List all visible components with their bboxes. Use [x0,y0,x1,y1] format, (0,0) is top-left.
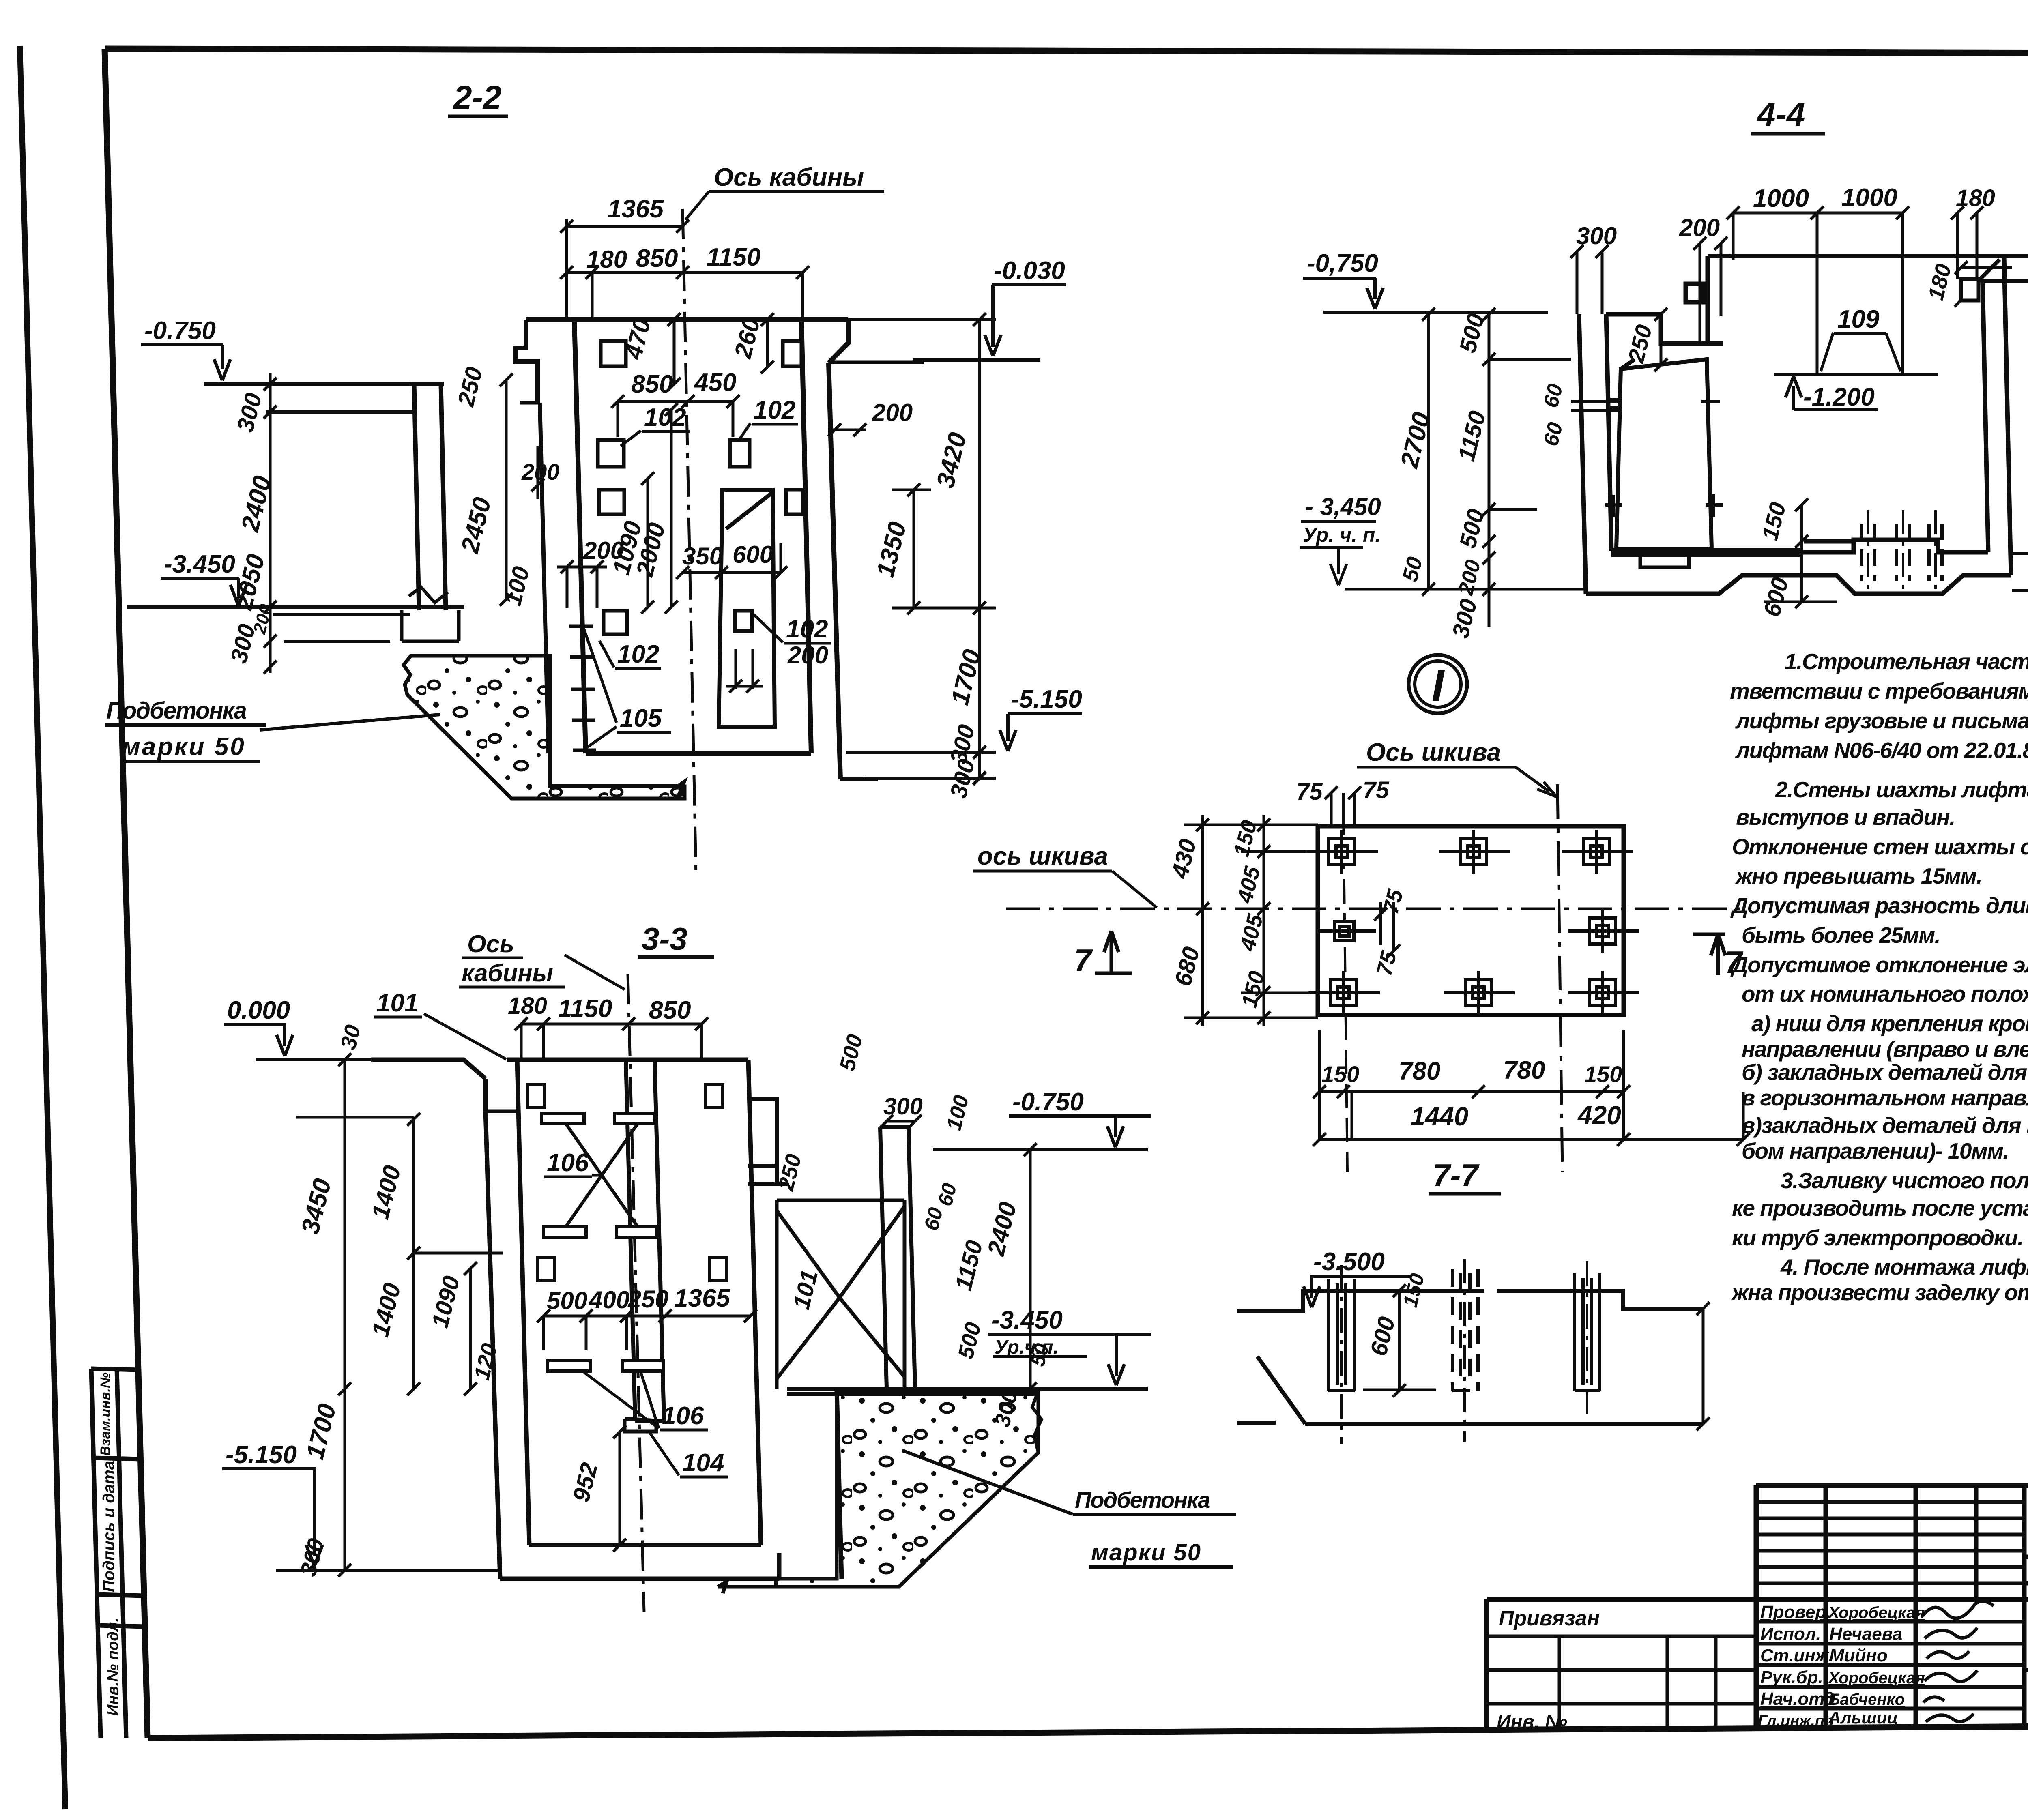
svg-text:Подпись и дата: Подпись и дата [100,1461,118,1592]
left chain 4-4 [1482,308,1571,627]
car (trapezoid) [1616,359,1712,549]
niche block right wall 4-4 [1961,279,1979,300]
guide plates row1 [541,1113,584,1124]
svg-text:105: 105 [620,704,662,732]
door formwork panel [719,490,775,727]
svg-text:а) ниш для крепления кронштейн: а) ниш для крепления кронштейнов направл… [1751,1011,2028,1036]
svg-text:Ось кабины: Ось кабины [714,163,864,191]
landing floor -0.750 line [933,1148,1148,1151]
svg-text:1.Строительная часть лифтовой: 1.Строительная часть лифтовой установки … [1785,649,2028,674]
plate outline [1318,826,1624,1015]
machine floor left [1606,314,1723,343]
svg-text:780: 780 [1503,1056,1545,1084]
svg-text:-3.500: -3.500 [1313,1248,1385,1276]
anchor niche B left [598,440,624,467]
svg-text:101: 101 [376,989,418,1017]
svg-text:ось шкива: ось шкива [977,842,1108,870]
label 104 block [625,1419,656,1432]
svg-text:бом направлении)- 10мм.: бом направлении)- 10мм. [1742,1138,2009,1163]
svg-text:жна произвести заделку отверст: жна произвести заделку отверстий под мон… [1731,1280,2028,1305]
svg-text:500: 500 [547,1287,587,1314]
svg-text:выступов и впадин.: выступов и впадин. [1736,805,1955,830]
svg-text:250: 250 [627,1286,668,1313]
step left top [486,1110,517,1113]
column pair left [412,384,446,610]
svg-text:850: 850 [649,996,691,1024]
svg-text:лифтам N06-6/40 от 22.01.81.: лифтам N06-6/40 от 22.01.81. [1735,738,2028,763]
svg-text:850: 850 [631,370,673,398]
sump recess [1800,540,1988,552]
svg-text:75: 75 [1363,777,1389,803]
niche squares 3-3 row2 [537,1257,554,1281]
anchor square r1c3 [1562,830,1633,874]
svg-text:850: 850 [636,245,678,273]
right inner wall 3-3 [669,1060,761,1545]
slab bottom line 7-7 [1237,1356,1703,1424]
svg-text:марки 50: марки 50 [1091,1539,1201,1566]
svg-text:Бабченко: Бабченко [1828,1691,1905,1708]
doc number row lines [2024,1557,2028,1583]
guide bracket marks on car [1605,389,1723,517]
wedge break mark [1032,1391,1042,1453]
svg-text:180: 180 [508,993,547,1019]
svg-text:направлении (вправо и влево)-2: направлении (вправо и влево)-20мм; [1742,1037,2028,1062]
svg-text:4. После монтажа лифта строите: 4. После монтажа лифта строительная орга… [1780,1254,2028,1279]
svg-text:Альшиц: Альшиц [1828,1708,1898,1727]
svg-text:ке производить после установки: ке производить после установки оборудова… [1732,1195,2028,1221]
svg-text:в)закладных деталей для крепле: в)закладных деталей для крепления других… [1742,1113,2028,1138]
bottom slab outline 4-4 [1586,575,2011,594]
svg-text:600: 600 [733,541,773,568]
svg-text:0.000: 0.000 [227,996,290,1024]
svg-text:102: 102 [617,640,659,668]
svg-text:106: 106 [547,1149,589,1177]
svg-text:200: 200 [787,642,828,669]
svg-text:780: 780 [1399,1057,1440,1085]
svg-text:Мийно: Мийно [1829,1646,1888,1665]
step under ground right [1686,256,1708,343]
anchor niche C left [599,490,624,514]
svg-text:1440: 1440 [1411,1102,1468,1131]
left lower wall face [540,403,548,753]
svg-text:Подбетонка: Подбетонка [106,698,247,724]
svg-text:кабины: кабины [462,959,553,987]
anchor group 3 [1575,1273,1600,1391]
svg-text:75: 75 [1296,779,1323,805]
svg-text:Инв. №: Инв. № [1497,1711,1567,1733]
svg-text:Ст.инж.: Ст.инж. [1760,1646,1834,1665]
svg-text:Гл.инж.пр: Гл.инж.пр [1758,1713,1834,1730]
anchor square r1c2 [1439,830,1510,874]
cab axis line [683,209,696,876]
ground line -0.330 right [1979,279,2028,283]
svg-text:-0,750: -0,750 [1307,249,1378,277]
pit floor [586,751,811,756]
svg-text:-5.150: -5.150 [1011,685,1082,713]
horizontal axis detail I [1006,908,1744,910]
frame bottom border [148,1723,2028,1738]
svg-text:7: 7 [1074,942,1093,978]
slab top line 7-7 [1237,1291,1703,1311]
anchor group 2 axis [1463,1259,1466,1442]
anchor square r2c3 [1568,909,1639,953]
svg-text:-3.450: -3.450 [164,550,235,578]
right dim 7-7 [1697,1302,1710,1430]
svg-text:1150: 1150 [558,995,612,1023]
svg-text:тветствии с требованиями альбо: тветствии с требованиями альбома АТ-600-… [1730,678,2028,704]
frame left border [105,49,148,1738]
top slab [526,320,848,363]
lean concrete wedge [404,656,685,798]
svg-text:109: 109 [1837,305,1880,333]
title block outer lines [1487,1485,2028,1730]
pit ladder rungs [569,626,596,750]
svg-text:1365: 1365 [608,195,664,223]
svg-text:450: 450 [694,369,736,397]
svg-text:быть более 25мм.: быть более 25мм. [1742,923,1940,948]
svg-text:от их номинального положения д: от их номинального положения должно быть… [1742,981,2028,1007]
revision table columns [1826,1485,2024,1728]
column footing [402,610,459,641]
svg-text:106: 106 [662,1402,704,1430]
bottom slab 3-3 [500,1553,779,1579]
lean concrete wedge 3-3 [776,1391,1038,1587]
svg-text:150: 150 [1584,1061,1622,1087]
column break mark [409,587,448,603]
svg-text:1150: 1150 [707,243,760,271]
left wall pair 4-4 [1579,314,1611,594]
svg-text:420: 420 [1577,1101,1621,1130]
anchor square r3c3 [1568,971,1639,1015]
vertical pulley axis [1558,784,1562,1172]
left inner wall [574,320,586,753]
cab axis line 3-3 [628,974,644,1612]
svg-text:104: 104 [682,1449,724,1477]
guide plates row2 [544,1227,586,1237]
left outer wall with niche [516,320,538,403]
svg-text:лифты грузовые и письма Ленинг: лифты грузовые и письма Ленинградского о… [1735,708,2028,733]
svg-text:102: 102 [644,403,686,431]
anchor niche D left [604,611,627,634]
svg-text:- 3,450: - 3,450 [1305,493,1381,520]
car bottom base [1640,549,1689,567]
svg-text:Взам.инв.№: Взам.инв.№ [98,1372,113,1456]
right wall top slant [1979,260,2000,281]
svg-text:Рук.бр.: Рук.бр. [1760,1668,1823,1687]
signature squiggles [1923,1601,1994,1722]
left inner wall 3-3 [517,1060,529,1545]
svg-text:Ур. ч. п.: Ур. ч. п. [1303,524,1381,546]
landing floor -3.450 double line [787,1389,1148,1394]
svg-text:2-2: 2-2 [453,79,502,116]
svg-text:200: 200 [1679,214,1720,241]
svg-text:2.Стены шахты лифта должны быт: 2.Стены шахты лифта должны быть вертикал… [1775,777,2028,802]
right footing lines [2012,554,2028,590]
ground line 0.000 [371,1060,486,1079]
pit slab lower line [718,1581,899,1593]
svg-text:Привязан: Привязан [1499,1607,1600,1630]
right wall outer 3-3 [837,1391,842,1579]
niche squares 3-3 row1 [527,1085,544,1107]
ground level lines -3.450 [127,607,464,641]
svg-text:150: 150 [1321,1061,1359,1087]
left outer wall 3-3 [486,1111,500,1579]
detail circle I [1409,655,1467,713]
svg-text:1365: 1365 [674,1284,730,1312]
right ground ledge [831,361,924,364]
svg-text:Ось: Ось [467,930,514,957]
ground line -0.030 right [1708,254,2028,258]
svg-text:Подбетонка: Подбетонка [1075,1487,1210,1513]
svg-text:-5.150: -5.150 [226,1441,297,1469]
right wall 4-4 [1983,256,2011,575]
anchor niche A right [783,341,801,366]
anchor square r3c2 [1444,971,1515,1015]
svg-text:б) закладных деталей для крепл: б) закладных деталей для крепления кронш… [1742,1060,2028,1085]
extension lines left [1184,825,1318,1018]
frame top border [105,49,2028,54]
svg-text:7-7: 7-7 [1433,1157,1480,1193]
svg-text:Допустимое отклонение элементо: Допустимое отклонение элементов строител… [1730,952,2028,977]
anchor group 3 axis [1586,1261,1588,1432]
svg-text:1000: 1000 [1753,185,1809,212]
svg-text:-3.450: -3.450 [991,1306,1063,1334]
svg-text:I: I [1432,661,1445,710]
svg-text:Испол.: Испол. [1760,1624,1821,1644]
svg-text:Хоробецкая: Хоробецкая [1828,1604,1925,1622]
anchor niche B right [730,440,750,467]
svg-text:200: 200 [872,399,913,426]
central wall pair [626,1060,664,1421]
anchor niche A left [601,341,626,366]
anchor square r3c1 [1308,971,1380,1015]
revision table rows [1756,1502,2024,1583]
svg-text:300: 300 [883,1093,923,1120]
svg-text:4-4: 4-4 [1756,96,1805,133]
svg-text:Отклонение стен шахты от верти: Отклонение стен шахты от вертикальной пл… [1732,834,2028,859]
svg-text:Инв.№ подл.: Инв.№ подл. [105,1618,122,1716]
door niche top right [748,1099,787,1184]
svg-text:в горизонтальном направлении (: в горизонтальном направлении (вправо и в… [1742,1085,2028,1110]
anchor niche D right [735,611,752,631]
svg-text:-0.750: -0.750 [144,317,216,345]
svg-text:1000: 1000 [1841,184,1897,212]
svg-text:-1.200: -1.200 [1803,383,1875,411]
svg-text:3-3: 3-3 [642,921,687,957]
anchor group 1 [1328,1279,1355,1391]
svg-text:Нечаева: Нечаева [1829,1624,1902,1644]
sump bolt axes [1868,510,1936,596]
svg-text:102: 102 [754,396,795,424]
guide rail bracket lines [1571,381,1621,426]
signature table rows [1756,1622,2024,1708]
anchor niche C right [786,490,803,514]
svg-text:180: 180 [586,246,627,273]
center divider [2024,1668,2028,1672]
svg-text:жно превышать 15мм.: жно превышать 15мм. [1735,863,1982,889]
anchor group 1 axis [1340,1265,1343,1444]
svg-text:Провер.: Провер. [1760,1602,1831,1622]
anchor square r2c1 small [1317,921,1376,941]
landing wall pair [880,1127,915,1389]
X brace between plates [566,1124,638,1227]
svg-text:102: 102 [786,615,828,643]
right inner wall [801,320,811,753]
pit floor 3-3 [529,1543,669,1547]
svg-text:ки труб электропроводки.: ки труб электропроводки. [1732,1225,2023,1250]
sump anchor bolts dashed [1862,524,1942,581]
svg-text:Ось шкива: Ось шкива [1366,738,1501,766]
svg-text:-0.750: -0.750 [1012,1088,1084,1116]
svg-text:марки 50: марки 50 [122,733,246,761]
left column axis [1343,811,1347,1172]
pulley dim verticals [1774,213,1938,375]
pit slab underside [550,779,878,797]
anchor square r1c1 [1307,830,1378,874]
left attach table lines [1487,1636,1756,1729]
far-left trim line [20,46,65,1809]
machine room floor lines [204,384,413,412]
pit floor 4-4 left [1611,550,1800,555]
guide plates row3 [548,1361,590,1371]
right outer wall [829,363,840,779]
left dim chain [264,373,277,674]
svg-text:400: 400 [589,1286,629,1313]
left stamp box [91,1369,145,1738]
door formwork X panel [777,1200,904,1389]
svg-text:Нач.отд: Нач.отд [1760,1689,1835,1709]
svg-text:-0.030: -0.030 [994,257,1065,285]
svg-text:3.Заливку чистого пола в машин: 3.Заливку чистого пола в машинном помеще… [1781,1168,2028,1193]
svg-text:Допустимая разность длин диаго: Допустимая разность длин диагоналей шахт… [1730,893,2028,918]
svg-text:Хоробецкая: Хоробецкая [1828,1669,1925,1687]
anchor group 2 dashed [1452,1269,1478,1391]
